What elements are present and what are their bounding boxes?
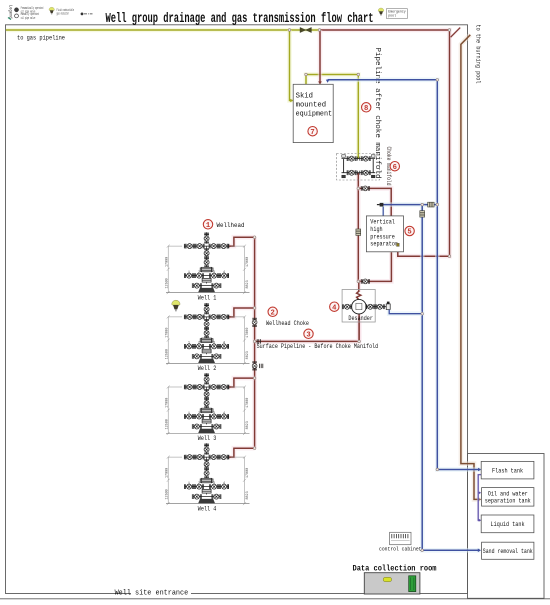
svg-text:Pipeline after choke manifold: Pipeline after choke manifold — [373, 48, 381, 179]
svg-text:Vertical: Vertical — [370, 219, 395, 226]
svg-text:mounted: mounted — [296, 101, 327, 109]
node surface tee — [253, 340, 256, 343]
node flash tank corner — [436, 468, 439, 471]
svg-text:Well 4: Well 4 — [198, 505, 217, 512]
wellhead tree Well 4 — [166, 443, 250, 505]
wellhead choke valve (lower) — [252, 362, 257, 370]
node well1 join — [253, 236, 256, 239]
svg-text:Skid: Skid — [296, 92, 313, 100]
desander assembly — [342, 290, 390, 323]
node sand tank corner — [421, 549, 424, 552]
data collection room — [364, 573, 420, 594]
svg-text:Legend: Legend — [8, 5, 14, 19]
marker 3 surface pipeline — [304, 329, 313, 339]
valve on separator bottom line — [361, 279, 369, 284]
closed valve on gas/flare junction — [300, 27, 311, 32]
svg-text:Well group drainage and gas tr: Well group drainage and gas transmission… — [106, 11, 374, 27]
node separator bottom tee — [357, 280, 360, 283]
node desander corner — [358, 340, 361, 343]
separator bottom valve line — [358, 252, 391, 281]
gap in border line for entrance — [131, 591, 191, 597]
svg-text:4: 4 — [332, 304, 337, 312]
separator relief valve — [397, 243, 400, 246]
svg-text:pool: pool — [388, 14, 396, 19]
flowline jog from Well 1 to trunk — [229, 237, 255, 246]
marker 1 wellhead — [203, 220, 212, 230]
svg-text:Flash tank: Flash tank — [492, 467, 523, 474]
node well3 join — [253, 377, 256, 380]
marker 2 wellhead choke — [268, 307, 277, 317]
node blue corner — [436, 79, 439, 82]
svg-text:6: 6 — [393, 164, 397, 172]
valve on separator gas line — [428, 202, 434, 207]
marker 7 skid mounted equipment — [308, 127, 317, 137]
wellhead tree Well 2 — [166, 303, 250, 365]
svg-text:1: 1 — [206, 222, 211, 230]
liquid tank — [481, 515, 534, 533]
svg-text:Liquid tank: Liquid tank — [491, 521, 525, 528]
svg-text:separator: separator — [370, 241, 398, 248]
node gas tee — [288, 29, 291, 32]
flare line 2 from tanks to burning pool — [461, 35, 480, 500]
riser desander to choke manifold — [356, 173, 361, 282]
purple line flash tank to liquid tank — [478, 475, 481, 521]
svg-text:separation tank: separation tank — [485, 498, 531, 505]
flowline jog from Well 4 to trunk — [229, 448, 255, 457]
fitting on surface pipeline — [257, 339, 260, 343]
blue line skid to flash tank — [328, 80, 481, 470]
svg-text:to gas pipeline: to gas pipeline — [17, 34, 65, 41]
svg-text:Well 3: Well 3 — [198, 435, 217, 442]
marker 5 separator — [405, 226, 414, 236]
oil and water separation tank — [482, 488, 534, 507]
purple branch to oil-water tank — [478, 491, 480, 494]
svg-text:Data collection room: Data collection room — [353, 564, 437, 573]
svg-text:control cabinet: control cabinet — [379, 545, 422, 552]
svg-text:Sand removal tank: Sand removal tank — [483, 548, 533, 555]
legend valve symbol (pneumatic) — [14, 8, 18, 12]
marker 8 pipeline after choke manifold — [362, 103, 371, 113]
gas line down to skid left side — [290, 30, 293, 101]
svg-text:8: 8 — [364, 105, 368, 113]
blowdown line into skid equipment — [318, 30, 323, 84]
node skid gas corner — [305, 73, 308, 76]
gas line skid top to choke manifold (olive) — [306, 75, 358, 159]
node manifold feed corner — [357, 73, 360, 76]
flash tank — [481, 461, 534, 479]
svg-text:to the burning pool: to the burning pool — [474, 25, 481, 84]
legend pipeline symbol — [81, 13, 84, 16]
blue drain header to sand removal tank — [422, 205, 480, 551]
fitting on drain header — [420, 211, 425, 217]
flowline jog from Well 3 to trunk — [229, 378, 255, 387]
svg-text:Wellhead: Wellhead — [217, 222, 245, 229]
separator outlet valve w/ actuator — [377, 203, 384, 207]
choke manifold assembly — [337, 154, 380, 181]
legend valve symbol (manual) — [15, 14, 19, 18]
node well4 join — [253, 447, 256, 450]
node drain tee — [421, 203, 424, 206]
svg-text:Wellhead Choke: Wellhead Choke — [266, 320, 309, 327]
skid mounted equipment box — [293, 84, 333, 142]
flare stub diagonal 1 — [451, 28, 461, 38]
sand removal tank — [482, 542, 534, 559]
desander inlet drop with flex joint — [356, 281, 361, 292]
flowline jog from Well 2 to trunk — [229, 308, 255, 317]
node desander join — [421, 312, 424, 315]
blue line separator gas outlet — [382, 207, 384, 216]
svg-text:Well 1: Well 1 — [198, 294, 217, 301]
tank farm enclosure — [468, 454, 545, 599]
node flare corner — [448, 29, 451, 32]
svg-text:Surface Pipeline - Before Chok: Surface Pipeline - Before Choke Manifold — [257, 343, 379, 350]
desander water outlet — [389, 310, 422, 314]
gas export pipeline to gas pipeline (olive) — [6, 28, 320, 33]
fitting on manifold riser — [356, 229, 361, 235]
svg-text:gas detector: gas detector — [57, 12, 70, 17]
node relief corner — [448, 255, 451, 258]
arrow into skid — [290, 99, 293, 103]
svg-text:Well site entrance: Well site entrance — [115, 589, 189, 597]
node blue junction — [436, 203, 439, 206]
wellhead choke valve (upper) — [252, 318, 257, 326]
svg-text:pressure: pressure — [370, 233, 395, 240]
wellhead tree Well 1 — [166, 232, 250, 294]
svg-text:7: 7 — [310, 129, 314, 137]
outer diagram border — [6, 25, 468, 594]
svg-text:equipment: equipment — [296, 110, 333, 118]
node separator inlet tee — [357, 187, 360, 190]
svg-text:Oil and water: Oil and water — [488, 491, 528, 498]
svg-text:Well 2: Well 2 — [198, 365, 217, 372]
control cabinet — [390, 532, 411, 544]
vertical high pressure separator box — [366, 216, 403, 252]
svg-text:5: 5 — [407, 229, 411, 237]
gas detector near Well 2 — [172, 300, 180, 311]
road line at page bottom — [0, 598, 550, 600]
node well2 join — [253, 307, 256, 310]
flare header to burning pool (line 1) — [320, 30, 450, 256]
node flare/gas junction — [318, 29, 321, 32]
emergency pool detector icon — [378, 8, 384, 16]
svg-text:oil pipe valve: oil pipe valve — [21, 16, 36, 21]
manifold outlet to separator inlet — [358, 188, 391, 215]
legend gas detector symbol — [49, 7, 54, 14]
marker 4 desander — [330, 302, 339, 312]
svg-text:2: 2 — [271, 309, 275, 317]
surface pipeline tee to desander — [255, 323, 360, 342]
well trunk pipeline — [252, 237, 257, 448]
svg-text:Desander: Desander — [348, 315, 373, 322]
marker 6 choke manifold — [390, 162, 399, 172]
desander outlet to surface tee — [357, 314, 362, 341]
wellhead tree Well 3 — [166, 373, 250, 435]
svg-text:3: 3 — [306, 331, 310, 339]
valve on separator inlet — [361, 186, 369, 191]
emergency pool box — [387, 9, 408, 19]
svg-text:high: high — [370, 226, 383, 233]
